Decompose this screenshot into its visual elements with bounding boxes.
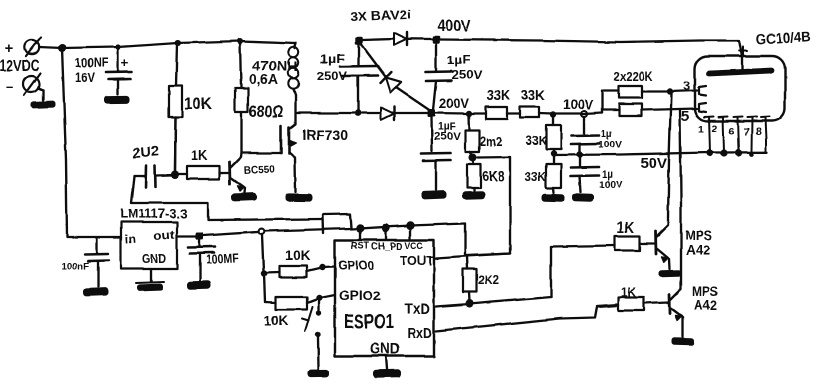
svg-text:GPIO0: GPIO0 — [338, 258, 374, 273]
svg-text:1: 1 — [698, 124, 704, 136]
svg-text:GC10/4B: GC10/4B — [755, 28, 811, 47]
svg-text:33K: 33K — [487, 88, 510, 104]
svg-text:100MF: 100MF — [205, 250, 239, 267]
svg-text:1µ: 1µ — [601, 128, 612, 140]
svg-text:2x220K: 2x220K — [614, 69, 654, 84]
svg-text:6: 6 — [729, 126, 735, 138]
svg-text:16V: 16V — [75, 69, 96, 85]
svg-text:1K: 1K — [617, 220, 635, 237]
svg-text:A42: A42 — [694, 297, 717, 313]
svg-text:33K: 33K — [525, 169, 547, 184]
svg-text:50V: 50V — [640, 155, 667, 172]
svg-text:TxD: TxD — [404, 301, 430, 318]
svg-text:RST: RST — [351, 240, 370, 252]
svg-text:10K: 10K — [184, 95, 212, 113]
svg-text:2: 2 — [712, 123, 718, 135]
svg-text:10K: 10K — [285, 248, 310, 263]
svg-text:33K: 33K — [526, 133, 548, 148]
svg-text:8: 8 — [756, 126, 762, 138]
svg-text:out: out — [153, 228, 175, 243]
svg-text:680Ω: 680Ω — [249, 103, 283, 121]
svg-text:2m2: 2m2 — [480, 134, 502, 149]
svg-text:ESPO1: ESPO1 — [344, 310, 394, 333]
svg-text:3: 3 — [683, 78, 690, 93]
svg-text:in: in — [124, 231, 136, 246]
svg-text:1K: 1K — [621, 285, 636, 299]
svg-text:TOUT: TOUT — [400, 253, 434, 268]
svg-text:+: + — [5, 40, 14, 57]
svg-text:GND: GND — [142, 251, 166, 266]
svg-text:LM1117-3.3: LM1117-3.3 — [120, 206, 187, 221]
svg-text:RxD: RxD — [407, 326, 432, 342]
svg-text:0,6A: 0,6A — [249, 71, 278, 87]
svg-text:100V: 100V — [599, 180, 624, 191]
svg-text:MPS: MPS — [685, 227, 712, 243]
svg-text:2U2: 2U2 — [132, 144, 159, 162]
svg-text:1µF: 1µF — [447, 55, 470, 67]
svg-text:6K8: 6K8 — [482, 168, 504, 185]
svg-text:2K2: 2K2 — [478, 272, 499, 287]
svg-text:5: 5 — [681, 108, 689, 125]
svg-text:3X BAV2i: 3X BAV2i — [350, 8, 411, 24]
svg-text:10K: 10K — [264, 313, 288, 328]
svg-text:12VDC: 12VDC — [0, 56, 39, 75]
svg-text:100NF: 100NF — [75, 56, 108, 70]
svg-text:400V: 400V — [437, 18, 471, 35]
svg-text:7: 7 — [744, 126, 750, 138]
svg-text:250V: 250V — [451, 70, 482, 82]
svg-text:1K: 1K — [191, 147, 207, 164]
svg-text:CH_PD: CH_PD — [371, 241, 403, 253]
svg-text:A42: A42 — [686, 242, 710, 258]
svg-text:33K: 33K — [521, 88, 545, 104]
svg-text:VCC: VCC — [405, 240, 423, 252]
svg-text:250V: 250V — [434, 131, 462, 143]
svg-text:250V: 250V — [317, 71, 347, 83]
svg-text:–: – — [6, 78, 14, 94]
svg-text:100nF: 100nF — [61, 261, 89, 272]
svg-text:BC550: BC550 — [244, 163, 276, 177]
svg-text:200V: 200V — [439, 95, 470, 111]
svg-text:1µF: 1µF — [320, 54, 345, 66]
svg-text:100V: 100V — [598, 140, 623, 151]
svg-text:100V: 100V — [563, 96, 594, 112]
svg-text:+: + — [121, 55, 129, 70]
svg-text:GPIO2: GPIO2 — [339, 288, 381, 303]
svg-text:IRF730: IRF730 — [302, 127, 348, 144]
